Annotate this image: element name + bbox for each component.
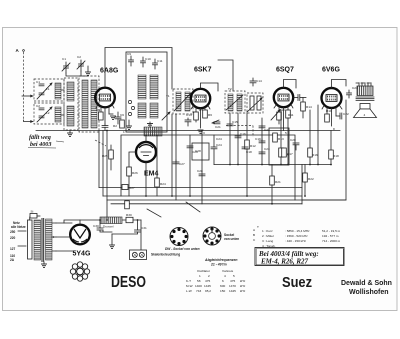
tiny pin stubs V2 — [191, 106, 210, 110]
ground oscillator — [147, 122, 153, 127]
svg-text:R18: R18 — [333, 154, 339, 158]
svg-text:C10: C10 — [145, 57, 151, 61]
tube V1 6A8G — [95, 88, 115, 108]
svg-text:C30: C30 — [93, 224, 99, 228]
svg-text:C31: C31 — [141, 226, 147, 230]
resistor R16 — [308, 110, 318, 165]
wire drop x157 — [156, 135, 158, 196]
ground V1 cathode — [109, 114, 116, 119]
svg-text:C24: C24 — [216, 137, 222, 141]
svg-text:R10: R10 — [279, 108, 285, 112]
resistor R19 cathode — [325, 114, 330, 122]
resistor R15 — [279, 110, 289, 165]
ground V1 osc — [126, 120, 132, 129]
svg-text:6A8G: 6A8G — [100, 68, 119, 75]
svg-text:C23: C23 — [352, 86, 358, 90]
svg-text:C24: C24 — [216, 143, 222, 147]
svg-text:Skalenbeleuchtung: Skalenbeleuchtung — [151, 253, 180, 257]
svg-text:C28: C28 — [197, 169, 203, 173]
ground bus B — [103, 195, 302, 197]
resistor R14 grid leak — [301, 98, 306, 119]
note fallt weg bei 4003 (handwritten) — [28, 134, 64, 148]
svg-text:Abgleichfrequenzen: Abgleichfrequenzen — [204, 258, 237, 262]
capacitor C19 — [255, 137, 265, 143]
arrow AVC — [212, 120, 220, 124]
capacitor C11b — [153, 59, 163, 69]
loudspeaker — [354, 104, 377, 118]
wire antenna dashed lead-in — [23, 52, 25, 120]
svg-text:1400: 1400 — [195, 284, 202, 288]
padder coil L9 — [144, 127, 162, 136]
oscillator block frame — [126, 52, 167, 132]
wire B+ to T2 — [218, 60, 233, 91]
svg-text:von unten: von unten — [224, 237, 239, 241]
svg-text:C5: C5 — [96, 108, 100, 112]
wire drop x262 — [261, 118, 263, 165]
wire drop x176 — [175, 114, 177, 200]
wire B+ feed up — [107, 200, 141, 250]
junction dots — [99, 130, 332, 221]
capacitor C28 — [197, 169, 205, 176]
node B+ rail — [214, 164, 331, 166]
svg-text:C11: C11 — [157, 59, 163, 63]
filter choke — [100, 217, 122, 229]
rectifier socket bottom view — [70, 262, 89, 281]
svg-text:C22: C22 — [264, 128, 270, 132]
wire V4 pins down — [327, 107, 336, 126]
mains voltage labels — [10, 221, 26, 262]
tube V4 6V6G — [322, 88, 342, 108]
capacitor C13 — [185, 118, 191, 126]
tube EM4 — [136, 142, 156, 162]
svg-text:6SK7: 6SK7 — [194, 67, 212, 74]
svg-text:Oszillator: Oszillator — [197, 269, 210, 273]
svg-text:: 5850 - 15,4 MHz: : 5850 - 15,4 MHz — [285, 229, 310, 233]
wire drop x238 — [237, 113, 239, 165]
wire drop x202 — [201, 131, 203, 204]
svg-text:2 : Mittel: 2 : Mittel — [262, 234, 274, 238]
antenna terminal A — [16, 48, 25, 53]
potentiometer arrow P1 — [271, 110, 281, 121]
wire pointer diagonal — [186, 202, 200, 212]
svg-text:2A: 2A — [10, 258, 15, 262]
component labels scatter — [96, 86, 358, 141]
wire speaker to bus — [345, 100, 347, 200]
svg-text:127: 127 — [10, 247, 16, 251]
wire input filter links — [61, 90, 79, 115]
svg-text:kHz: kHz — [240, 279, 246, 283]
voltage selector — [28, 220, 33, 259]
svg-text:alle Netze: alle Netze — [11, 225, 26, 229]
svg-text:21 - 49?m: 21 - 49?m — [210, 263, 227, 267]
resistor R1 — [99, 112, 104, 120]
resistor R6 — [203, 110, 208, 118]
resistor R29 — [125, 201, 130, 209]
electrolytic C30 — [93, 220, 103, 230]
svg-text:4: 4 — [364, 113, 366, 117]
wire choke out — [122, 219, 141, 221]
svg-text:192 - 577 m: 192 - 577 m — [322, 234, 339, 238]
wire V1 pins down — [101, 106, 109, 125]
band filter L1 box (dashed) — [34, 79, 64, 101]
svg-text:C28: C28 — [195, 149, 201, 153]
svg-text:R27: R27 — [129, 186, 135, 190]
fuse Si — [30, 210, 40, 221]
tiny pin stubs V1 — [96, 105, 114, 109]
svg-text:1425: 1425 — [229, 289, 236, 293]
tiny pin stubs V4 — [322, 106, 342, 110]
svg-text:R14: R14 — [306, 105, 312, 109]
resistor R18 — [329, 131, 339, 165]
svg-text:8: 8 — [333, 127, 335, 131]
svg-text:220: 220 — [10, 236, 16, 240]
wire V3 pins down — [279, 106, 288, 131]
electrolytic C31 — [135, 220, 147, 232]
wire drop x99 — [98, 131, 100, 188]
svg-text:Si: Si — [31, 210, 34, 214]
svg-text:3 : Lang: 3 : Lang — [262, 239, 273, 243]
svg-text:DW - Sockel von unten: DW - Sockel von unten — [165, 247, 200, 251]
resistor R27 — [122, 185, 135, 191]
svg-text:3: 3 — [203, 131, 205, 135]
svg-text:95,2: 95,2 — [205, 289, 211, 293]
svg-text:R6: R6 — [208, 113, 212, 117]
resistor R17 — [282, 148, 293, 157]
wire transformer to rectifier — [56, 220, 80, 251]
coil L3/L4 box (dashed) — [64, 78, 78, 130]
resistor R13 — [273, 133, 284, 142]
resistor R11 — [286, 110, 291, 118]
svg-text:1: 1 — [199, 274, 201, 278]
capacitor C5 — [102, 124, 108, 131]
resistor R24 — [155, 178, 166, 187]
svg-text:C23: C23 — [264, 147, 270, 151]
wire drop x172 — [171, 114, 173, 196]
svg-text:250: 250 — [10, 230, 16, 234]
volume potentiometer arrow — [247, 98, 263, 113]
svg-text:C14: C14 — [256, 79, 262, 83]
capacitor C27 — [173, 160, 185, 166]
AVC resistor box R12 — [245, 140, 256, 149]
ground V2 cathode — [198, 130, 204, 133]
svg-text:C13: C13 — [186, 113, 192, 117]
oscillator coil L6 — [138, 103, 146, 118]
resistor R30 — [126, 213, 133, 223]
capacitor C6 — [115, 112, 124, 124]
resistor R10 — [277, 112, 282, 120]
svg-text:fällt weg: fällt weg — [29, 134, 51, 141]
wire earth arrow into band filter — [24, 120, 34, 123]
capacitor C16 — [235, 132, 246, 138]
coupling capacitor C17 — [293, 95, 306, 101]
trimmer C11 — [162, 112, 171, 121]
capacitor C24 — [211, 135, 222, 165]
wire drop x190 — [189, 135, 191, 196]
alignment table title — [204, 258, 237, 267]
svg-text:1: 1 — [123, 130, 125, 134]
svg-text:: 420 - 150 kHz: : 420 - 150 kHz — [285, 239, 306, 243]
svg-text:475: 475 — [205, 279, 210, 283]
wire V2 pins down — [196, 107, 205, 128]
svg-text:R22: R22 — [308, 177, 314, 181]
dashed AVC link — [226, 126, 253, 138]
svg-text:R13: R13 — [278, 137, 284, 141]
svg-text:C21: C21 — [215, 125, 221, 129]
svg-text:R16: R16 — [312, 153, 318, 157]
svg-text:C9: C9 — [127, 52, 131, 56]
svg-text:6SQ7: 6SQ7 — [276, 67, 294, 74]
svg-text:kHz: kHz — [240, 284, 246, 288]
svg-text:R5: R5 — [199, 108, 203, 112]
tone box — [192, 143, 209, 160]
maker Dewald & Sohn — [341, 280, 392, 296]
svg-text:R2: R2 — [113, 124, 117, 128]
wire drop x247 — [246, 113, 248, 196]
IF transformer T2 (dashed) — [225, 91, 245, 113]
wire drop x230 — [229, 113, 231, 165]
svg-text:T1: T1 — [166, 94, 170, 98]
capacitor C18 — [242, 147, 252, 154]
svg-text:L2: L2 — [46, 111, 50, 115]
svg-text:R25: R25 — [102, 154, 108, 158]
wire bus corner right — [301, 165, 303, 204]
svg-text:C22: C22 — [343, 112, 349, 116]
band filter L2 box (dashed) — [34, 103, 64, 124]
ground near trimmers — [85, 66, 91, 75]
AVC bus line — [99, 187, 302, 189]
svg-text:Wollishofen: Wollishofen — [349, 289, 389, 296]
power transformer primary — [34, 220, 41, 260]
tube V2 6SK7 — [191, 89, 210, 108]
svg-text:C6: C6 — [120, 113, 124, 117]
ground filter — [109, 234, 115, 248]
capacitor C21 — [214, 122, 221, 129]
svg-text:R11: R11 — [288, 113, 294, 117]
svg-text:4: 4 — [224, 274, 226, 278]
EM4 section frame — [121, 135, 295, 200]
svg-text:714 - 2000 m: 714 - 2000 m — [322, 239, 341, 243]
svg-text:C19: C19 — [255, 137, 261, 141]
resistor R22 — [303, 165, 314, 197]
svg-text:475: 475 — [230, 279, 235, 283]
svg-text:: 1560 - 520 kHz: : 1560 - 520 kHz — [285, 234, 308, 238]
wave band text block — [253, 225, 341, 248]
switch contacts S1 — [128, 100, 134, 115]
capacitor C20 — [290, 138, 299, 150]
wire grid cap V2 loop — [201, 83, 219, 91]
svg-text:R30: R30 — [126, 213, 132, 217]
svg-text:R24: R24 — [160, 182, 166, 186]
svg-text:R26: R26 — [132, 171, 138, 175]
power transformer core — [42, 218, 44, 262]
svg-text:C27: C27 — [179, 162, 185, 166]
capacitor stack right — [259, 126, 270, 154]
svg-text:C1: C1 — [62, 57, 66, 61]
capacitor C14 — [250, 78, 262, 86]
svg-text:R19: R19 — [326, 109, 332, 113]
ground transformer — [41, 262, 47, 267]
trimmer capacitor C2 — [77, 55, 85, 71]
capacitor C23 tone — [347, 90, 352, 98]
svg-text:Suez: Suez — [282, 274, 312, 291]
svg-text:T: T — [257, 225, 259, 229]
bus C — [107, 199, 346, 201]
output transformer T3 — [356, 83, 374, 101]
svg-text:R21: R21 — [275, 180, 281, 184]
AF coupling box frame — [269, 128, 289, 165]
svg-text:5: 5 — [233, 274, 235, 278]
svg-text:C20: C20 — [290, 138, 296, 142]
secondary taps — [52, 223, 56, 251]
svg-text:L1: L1 — [46, 87, 50, 91]
svg-text:kHz: kHz — [240, 289, 246, 293]
dashed pointer under V1 — [95, 140, 106, 146]
svg-text:150: 150 — [220, 289, 225, 293]
svg-text:Vorkreis: Vorkreis — [222, 269, 234, 273]
capacitor C22 — [336, 113, 342, 119]
svg-text:K-T: K-T — [186, 279, 191, 283]
svg-text:1445: 1445 — [204, 284, 211, 288]
capacitor C9 — [127, 52, 134, 66]
tube 5Y4G — [70, 225, 90, 245]
svg-text:6: 6 — [222, 279, 224, 283]
detector filter box (dashed) — [247, 93, 263, 113]
svg-text:6V6G: 6V6G — [322, 67, 340, 74]
svg-text:L-W: L-W — [186, 289, 192, 293]
wire drop x107 — [106, 131, 108, 201]
svg-text:Dewald & Sohn: Dewald & Sohn — [341, 280, 392, 287]
svg-text:58: 58 — [197, 279, 201, 283]
wire drop x103 — [102, 131, 104, 197]
wire C30 C31 join — [100, 230, 138, 234]
socket octal bottom view — [203, 227, 221, 245]
svg-text:Drossel: Drossel — [103, 225, 114, 229]
oscillator coil L7 — [150, 75, 158, 99]
wire antenna arrow into band filter — [22, 95, 34, 98]
resistor R21 — [270, 165, 281, 204]
power transformer secondary — [46, 219, 53, 260]
svg-text:C2: C2 — [77, 55, 81, 59]
bus D — [111, 203, 302, 205]
wire grid cap V1 to oscillator top — [105, 48, 172, 90]
tiny pin stubs V3 — [274, 105, 293, 109]
svg-text:2: 2 — [208, 274, 210, 278]
svg-text:EM-4, R26, R27: EM-4, R26, R27 — [260, 258, 309, 266]
svg-text:bei 4003: bei 4003 — [30, 141, 51, 148]
socket DW bottom view — [170, 228, 188, 246]
resistor R26 — [127, 167, 138, 196]
tube V3 6SQ7 — [274, 88, 293, 107]
wire pointer diagonal 2 — [147, 209, 161, 217]
svg-text:C18: C18 — [246, 150, 252, 154]
alignment table — [186, 269, 246, 293]
svg-text:R12: R12 — [250, 144, 256, 148]
wire grid cap V4 loop — [332, 80, 347, 89]
wire EM4 leads — [129, 135, 146, 196]
wire bus C right corner — [302, 199, 346, 201]
svg-text:R17: R17 — [287, 152, 293, 156]
oscillator coil L8 — [150, 103, 158, 118]
handwritten note box — [255, 248, 344, 266]
resistor R5 — [194, 112, 199, 120]
oscillator coil L5 — [138, 75, 146, 99]
wire trimmer row — [66, 71, 88, 76]
resistor R2 — [113, 120, 124, 128]
svg-text:C15: C15 — [232, 120, 238, 124]
svg-text:743: 743 — [196, 289, 201, 293]
capacitor C26 — [187, 146, 198, 154]
svg-text:5: 5 — [285, 131, 287, 135]
socket octal label — [224, 233, 239, 241]
wire grid cap V3 — [284, 80, 297, 89]
svg-text:51,2 - 19,5 m: 51,2 - 19,5 m — [322, 229, 341, 233]
svg-text:600: 600 — [220, 284, 225, 288]
svg-text:C1: C1 — [36, 80, 40, 84]
svg-text:1470: 1470 — [229, 284, 236, 288]
svg-text:B: B — [253, 233, 255, 237]
svg-text:DESO: DESO — [111, 274, 146, 291]
capacitor C10 — [141, 57, 151, 67]
svg-text:T2: T2 — [228, 87, 232, 91]
wire heater bus left — [36, 130, 340, 132]
wire drop x288 — [287, 118, 289, 165]
IF transformer T1 (dashed) — [173, 89, 193, 114]
resistor R25 — [102, 145, 113, 170]
trimmer capacitor C1 — [62, 57, 70, 73]
ground input filter — [67, 130, 73, 136]
capacitor C15 — [227, 120, 238, 126]
svg-text:C16: C16 — [240, 132, 246, 136]
wire drop x318 — [317, 105, 319, 165]
dial lamps box — [130, 250, 147, 260]
tuning coil assembly box (dashed) — [79, 76, 99, 132]
wire rectifier output — [64, 220, 100, 223]
mains wires — [18, 231, 26, 246]
svg-text:M-W: M-W — [186, 284, 193, 288]
svg-text:1 : Kurz: 1 : Kurz — [262, 229, 273, 233]
svg-text:5Y4G: 5Y4G — [73, 251, 91, 258]
svg-text:C2: C2 — [36, 104, 40, 108]
